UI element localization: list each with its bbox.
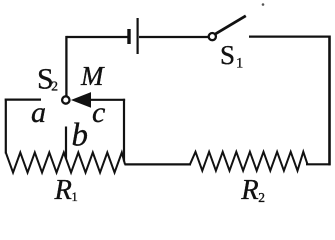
svg-text:a: a: [31, 96, 46, 129]
wire: contact c horizontal from wiper triangle to corner: [90, 99, 125, 101]
node b tap stub from middle of R1: [65, 127, 67, 159]
svg-text:c: c: [92, 96, 105, 129]
wire: top wire right segment (after switch gap to top-right corner): [249, 35, 330, 37]
switch S2 wiper arrow M (solid triangle pointing left): [71, 92, 91, 108]
svg-text:2: 2: [258, 190, 265, 205]
wire: right vertical wire: [328, 36, 331, 166]
battery: short thick plate (negative): [127, 29, 130, 44]
wire: contact c vertical down to right end of R1: [123, 99, 125, 162]
svg-text:1: 1: [72, 190, 78, 204]
svg-text:b: b: [72, 118, 89, 154]
resistor R1 zigzag: [6, 153, 125, 173]
wire: contact a horizontal stub (open end near S2): [5, 98, 41, 100]
switch S1 pivot circle: [209, 33, 216, 40]
wire: top wire from battery to switch S1 pivot: [139, 36, 208, 38]
resistor R2 zigzag: [190, 152, 308, 171]
stray dot artifact top right: [262, 3, 265, 6]
switch S1 blade (open, up to the right): [216, 16, 246, 34]
switch S2 wiper pivot circle: [62, 96, 69, 103]
svg-text:R: R: [54, 175, 72, 205]
svg-text:M: M: [80, 61, 105, 91]
svg-text:R: R: [240, 175, 258, 205]
wire: left vertical wire (contact a branch down to R1): [5, 99, 7, 154]
wire: bottom wire between R1 and R2: [125, 163, 192, 165]
svg-text:1: 1: [236, 56, 243, 72]
wire: S2 branch vertical from top wire down to wiper circle: [65, 36, 67, 96]
wire: top wire left segment (corner above S2 to battery): [67, 36, 128, 38]
wire: bottom wire from right corner to resistor R2: [306, 163, 330, 165]
svg-text:2: 2: [51, 78, 58, 93]
battery: long thin plate (positive): [137, 18, 139, 54]
svg-text:S: S: [220, 40, 235, 70]
